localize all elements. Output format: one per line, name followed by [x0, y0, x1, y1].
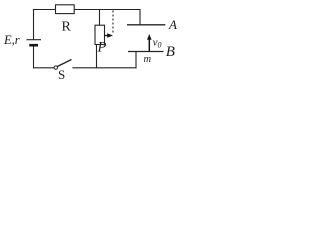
wire left upper	[33, 10, 35, 40]
rheostat P body	[95, 25, 105, 44]
wire plate B feed	[135, 52, 137, 68]
dashed wiper line	[112, 11, 114, 34]
wire bottom right	[73, 67, 136, 69]
svg-text:m: m	[144, 54, 152, 65]
switch S blade	[57, 60, 71, 67]
svg-text:E,r: E,r	[3, 33, 20, 47]
wire top right corner down to plate A	[139, 10, 141, 25]
rheostat wiper arrow	[105, 33, 114, 38]
switch S pivot	[54, 66, 57, 69]
wire top	[34, 9, 141, 11]
battery E,r	[27, 40, 42, 46]
resistor R	[56, 5, 75, 14]
svg-text:B: B	[166, 44, 175, 60]
wire rheostat bottom	[96, 45, 98, 68]
wire left lower	[33, 47, 35, 68]
svg-text:S: S	[58, 67, 65, 82]
svg-text:R: R	[62, 19, 72, 34]
wire bottom left	[34, 67, 54, 69]
svg-text:A: A	[168, 17, 177, 32]
svg-text:P: P	[97, 40, 107, 56]
plate A	[127, 24, 165, 26]
particle velocity arrow v0	[147, 34, 152, 51]
wire rheostat top	[99, 10, 101, 26]
plate B	[128, 51, 164, 53]
